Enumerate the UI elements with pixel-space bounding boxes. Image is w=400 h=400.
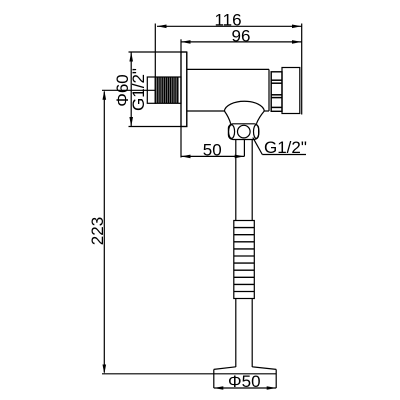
svg-text:Φ50: Φ50 <box>228 372 260 391</box>
knurl line 1 <box>271 79 282 81</box>
pipe center stub extension <box>243 140 245 157</box>
knurl line 5 <box>271 106 282 108</box>
dimension Phi50 line <box>214 387 276 389</box>
knurl line 2 <box>271 82 282 84</box>
svg-text:G1/2": G1/2" <box>129 68 148 111</box>
outlet bell right side <box>256 111 264 124</box>
extension line 96/50 at flange <box>180 39 182 157</box>
223 bottom arrow <box>103 365 107 375</box>
dimension 116 left arrow <box>157 25 167 29</box>
outlet dome arc <box>224 101 264 111</box>
floor base left slope <box>214 367 236 370</box>
Phi60 top extension line / flange top edge <box>129 51 187 53</box>
223 bottom extension line to base <box>102 373 276 375</box>
threaded nipple thread block <box>155 77 181 103</box>
dimension 116 line <box>157 25 302 27</box>
outlet bell left side <box>224 111 230 124</box>
svg-text:50: 50 <box>203 140 222 159</box>
nut right facet ellipse <box>254 125 259 139</box>
valve body barrel right edge <box>268 69 270 111</box>
threaded nipple plain stub <box>147 77 155 103</box>
shared extension line right (116/96) <box>301 24 303 115</box>
corrugated rib section block <box>234 221 255 299</box>
dimension 223 vertical line <box>103 92 105 373</box>
knurl line 4 <box>271 97 282 99</box>
inlet centerline <box>102 89 155 91</box>
push button <box>282 68 300 114</box>
valve body barrel bottom edge right part <box>264 110 269 112</box>
knurl line 3 <box>271 94 282 96</box>
Phi50 left arrow <box>214 386 224 390</box>
dimension Phi60 vertical line <box>130 52 132 127</box>
floor base right slope <box>252 367 276 370</box>
dimension 116 extension line left <box>154 24 156 78</box>
svg-text:G1/2": G1/2" <box>264 138 307 157</box>
valve body barrel left edge <box>186 52 188 127</box>
Phi60 bottom arrow <box>129 117 133 127</box>
valve body barrel bottom edge left part <box>187 110 225 112</box>
svg-text:223: 223 <box>88 217 107 245</box>
223 top arrow <box>103 90 107 100</box>
nut left facet ellipse <box>229 125 235 139</box>
Phi60 bottom extension line / flange bottom edge <box>129 126 188 128</box>
Phi50 right arrow <box>267 386 277 390</box>
valve body barrel top edge <box>187 68 269 70</box>
dimension 96 left arrow <box>181 40 191 44</box>
thread hatch strokes <box>157 77 178 103</box>
dimension 116 right arrow <box>292 25 302 29</box>
dimension 96 line <box>181 41 302 43</box>
down pipe right edge <box>251 140 253 368</box>
outlet nut body <box>228 124 258 140</box>
down pipe left edge <box>235 140 237 368</box>
50 left arrow <box>181 155 191 159</box>
G1/2 leader diagonal <box>253 138 262 155</box>
nut center facet circle <box>238 125 251 138</box>
floor base left edge <box>213 369 215 388</box>
G1/2 leader horizontal <box>262 154 306 156</box>
knurled ring body <box>271 72 282 112</box>
rib lines <box>234 228 255 292</box>
50 right arrow <box>235 155 245 159</box>
dimension 96 right arrow <box>292 40 302 44</box>
dimension 50 line <box>181 155 244 157</box>
svg-text:96: 96 <box>232 26 251 45</box>
floor base right edge <box>275 369 277 388</box>
wall flange plate <box>181 52 187 127</box>
Phi60 top arrow <box>129 52 133 62</box>
